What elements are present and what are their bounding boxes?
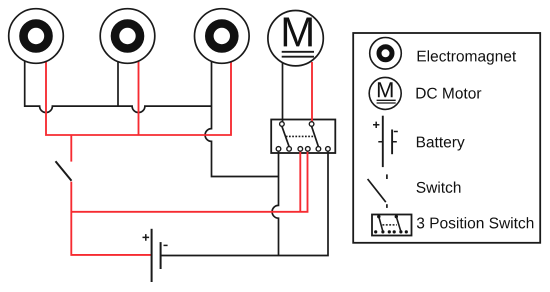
wire: electromagnet L2 red lead xyxy=(138,60,140,135)
wire: 3 position switch terminal 3 red lead xyxy=(299,151,301,212)
legend battery symbol negative plate xyxy=(391,130,393,155)
3 position switch S2 bottom pin 4 xyxy=(306,147,311,152)
motor M1 underline 2 xyxy=(282,56,314,58)
3 position switch S2 bottom pin 5 xyxy=(316,147,321,152)
wire: red bus connecting electromagnet red leads xyxy=(46,60,231,135)
battery B1 minus sign xyxy=(164,244,168,246)
switch S1 blade xyxy=(56,161,72,181)
legend switch symbol bottom contact stub xyxy=(386,204,388,208)
motor M1 underline 1 xyxy=(282,51,314,53)
electromagnet L3 coil ring xyxy=(209,24,234,49)
legend 3 position switch symbol top dots xyxy=(377,215,380,218)
legend 3 position switch symbol dashed link xyxy=(382,224,396,226)
wire: red mid bus to 3 position switch terminal 4 xyxy=(71,151,307,212)
legend DC motor symbol circle xyxy=(369,77,401,109)
legend electromagnet symbol coil ring xyxy=(379,47,392,60)
3 position switch S2 dashed link xyxy=(286,135,315,137)
legend battery symbol minus sign xyxy=(394,131,398,133)
legend electromagnet symbol outer circle xyxy=(370,38,402,70)
legend label DC Motor xyxy=(417,88,482,99)
wire: black bus from electromagnets L1,L2,L3 with hops over red wires xyxy=(25,60,212,113)
3 position switch S2 bottom pin 1 xyxy=(276,147,281,152)
electromagnet L3 body xyxy=(195,9,250,64)
3 position switch S2 top pin B xyxy=(309,122,314,127)
wire: motor M1 black lead to switch top terminal xyxy=(282,62,284,122)
3 position switch S2 lever 1 xyxy=(282,126,289,146)
battery B1 negative plate xyxy=(160,242,162,269)
electromagnet L1 coil ring xyxy=(24,24,49,49)
wire: battery negative return to switch terminal 6 xyxy=(161,151,328,255)
3 position switch S2 bottom pin 3 xyxy=(298,147,303,152)
legend DC motor symbol letter M and underlines xyxy=(378,82,393,97)
wire: electromagnet L3 black lead down with hop over red bus, to junction xyxy=(205,60,278,177)
3 position switch S2 bottom pin 2 xyxy=(287,147,292,152)
3 position switch S2 bottom pin 6 xyxy=(326,147,331,152)
wire: switch terminal 1 down to battery line with hop over red wire xyxy=(272,151,278,255)
electromagnet L2 body xyxy=(100,9,155,64)
legend label Battery xyxy=(417,137,465,151)
wire: electromagnet L2 black lead xyxy=(117,60,119,106)
wire: motor M1 red lead to switch top terminal xyxy=(311,62,313,122)
electromagnet L2 coil ring xyxy=(115,24,140,49)
battery B1 positive plate xyxy=(151,229,153,282)
3 position switch S2 body xyxy=(271,120,335,154)
legend label 3 Position Switch xyxy=(417,217,533,228)
wire: red from switch S1 down to battery positive xyxy=(71,182,151,255)
legend battery symbol positive plate xyxy=(382,116,384,167)
electromagnet L1 body xyxy=(9,9,64,64)
motor M1 body xyxy=(268,11,323,66)
legend battery symbol plus sign xyxy=(373,122,379,128)
legend battery symbol lead ticks xyxy=(378,141,397,143)
3 position switch S2 lever 2 xyxy=(312,126,319,146)
legend label Switch xyxy=(417,182,461,193)
legend switch symbol blade xyxy=(368,179,386,202)
legend 3 position switch symbol body xyxy=(372,215,412,236)
motor M1 letter M xyxy=(284,18,312,47)
wire: red branch from bus down to switch S1 top contact xyxy=(70,135,72,162)
3 position switch S2 top pin A xyxy=(280,122,285,127)
legend switch symbol top contact stub xyxy=(386,174,388,179)
battery B1 plus sign xyxy=(143,234,150,241)
legend 3 position switch symbol bottom dots xyxy=(374,230,377,233)
legend box xyxy=(353,33,540,243)
legend label Electromagnet xyxy=(418,50,516,64)
legend 3 position switch symbol levers xyxy=(379,217,383,232)
